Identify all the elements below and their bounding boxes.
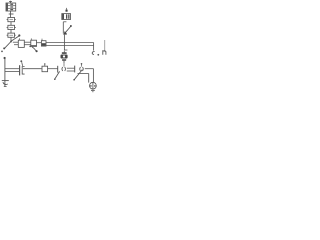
connector pair <box>80 63 84 71</box>
ground G1 <box>61 51 68 64</box>
wire pair <box>67 68 75 71</box>
switch S1 upper throw <box>12 34 21 41</box>
relay K3 <box>62 14 71 20</box>
ground stem <box>92 91 94 93</box>
wire <box>10 22 12 26</box>
wire <box>37 42 42 44</box>
relay K4 <box>42 63 48 71</box>
wire pair to right <box>46 42 93 45</box>
contact bar <box>57 66 59 73</box>
wire drop <box>4 59 6 87</box>
relay K2 <box>41 41 46 46</box>
wire <box>10 11 12 18</box>
lamp L1 <box>66 8 68 12</box>
connector J1 <box>18 40 24 47</box>
battery B1 top terminal tick <box>9 1 12 3</box>
connector hook h <box>103 50 106 55</box>
wire branch to motor <box>78 74 89 83</box>
switch S4 lever <box>54 71 59 79</box>
ground clamp <box>2 81 9 87</box>
connector J2 bars <box>20 65 25 75</box>
node tick <box>64 49 67 51</box>
switch S2 lever <box>29 46 37 53</box>
relay K1 <box>31 40 37 46</box>
wire <box>10 30 12 34</box>
pin tick <box>41 39 43 41</box>
connector hook <box>92 52 94 55</box>
connector dot <box>4 57 6 59</box>
fuse F2 <box>7 25 16 29</box>
connector pair <box>62 63 65 71</box>
motor M1 <box>90 82 97 90</box>
wire drop faint <box>104 40 106 52</box>
pin tick <box>18 38 20 40</box>
switch S1 lever <box>3 41 12 50</box>
wire corner down <box>92 69 94 83</box>
pin tick <box>20 60 22 66</box>
wire <box>23 68 42 70</box>
node dot <box>1 51 3 53</box>
wire double lead <box>13 42 18 45</box>
contact bar <box>74 66 76 73</box>
switch S3 lever <box>63 25 72 34</box>
wire <box>10 37 12 41</box>
battery B1 <box>6 3 16 11</box>
fuse F1 <box>7 18 16 22</box>
node tick <box>9 13 14 15</box>
wire <box>48 68 58 70</box>
wire corner right <box>93 42 95 50</box>
wire <box>63 35 65 50</box>
wire double lead <box>24 42 31 45</box>
wire pair <box>5 69 19 72</box>
wire <box>85 68 94 70</box>
fuse F3 <box>7 33 16 37</box>
switch S5 lever <box>74 70 83 81</box>
node dot <box>97 54 99 56</box>
wire bracket <box>63 22 66 34</box>
ground tick <box>91 90 95 92</box>
pin tick <box>30 38 32 40</box>
